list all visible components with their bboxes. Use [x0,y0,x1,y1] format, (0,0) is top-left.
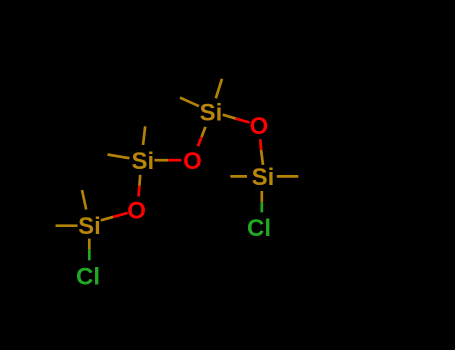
svg-text:O: O [183,148,202,175]
svg-text:Si: Si [78,213,101,240]
wire methyl on Si2 left [108,155,130,159]
svg-text:Cl: Cl [247,215,271,242]
wire O1-Si2 bond [139,175,141,197]
svg-text:Si: Si [200,100,223,127]
wire Si4-Cl2 bond [260,191,263,212]
wire methyl on Si2 up [143,126,145,145]
svg-text:Cl: Cl [76,263,100,290]
wire methyl on Si4 right [277,175,299,178]
wire O3-Si4 bond [260,139,263,165]
svg-text:O: O [250,113,269,140]
wire Si1-O1 bond [101,213,128,220]
wire methyl on Si3 left [180,98,199,107]
svg-text:Si: Si [252,164,275,191]
wire methyl on Si4 left [230,175,247,178]
wire methyl on Si1 up [82,190,86,210]
wire methyl on Si1 left [56,224,78,227]
svg-text:Si: Si [131,148,154,175]
wire methyl on Si3 up [216,79,222,99]
wire O2-Si3 bond [198,127,206,147]
wire Si2-O2 bond [154,159,181,162]
wire Si1-Cl1 bond [88,239,91,261]
wire Si3-O3 bond [223,115,250,123]
svg-text:O: O [127,198,146,225]
